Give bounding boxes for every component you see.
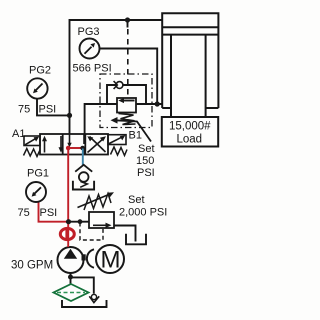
svg-text:PG3: PG3 [78, 26, 100, 38]
svg-text:PSI: PSI [137, 167, 155, 179]
svg-text:150: 150 [136, 155, 154, 167]
svg-text:PG2: PG2 [29, 65, 51, 77]
svg-text:75: 75 [18, 104, 30, 116]
svg-text:Load: Load [177, 134, 203, 146]
svg-text:Set: Set [138, 143, 155, 155]
svg-text:Set: Set [128, 194, 145, 206]
svg-text:M: M [101, 247, 121, 274]
svg-text:15,000#: 15,000# [169, 121, 211, 133]
svg-text:30 GPM: 30 GPM [11, 260, 53, 272]
svg-text:PSI: PSI [40, 207, 58, 219]
svg-text:PSI: PSI [39, 104, 57, 116]
svg-text:2,000 PSI: 2,000 PSI [119, 207, 167, 219]
svg-text:566 PSI: 566 PSI [73, 63, 112, 75]
svg-text:A1: A1 [12, 128, 25, 140]
svg-text:75: 75 [18, 207, 30, 219]
svg-text:PG1: PG1 [27, 168, 49, 180]
svg-text:B1: B1 [129, 130, 142, 142]
